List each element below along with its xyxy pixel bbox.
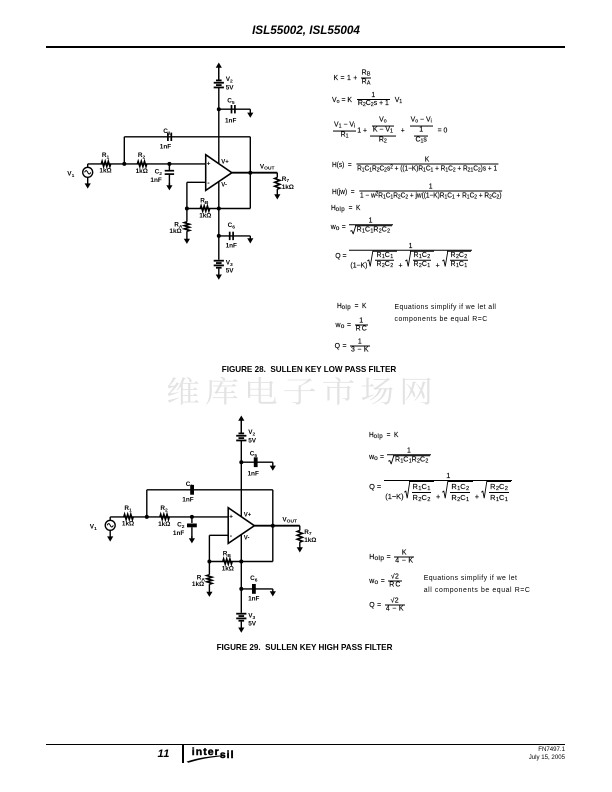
svg-text:V+: V+	[221, 160, 229, 166]
svg-text:C2: C2	[177, 521, 185, 529]
svg-text:1nF: 1nF	[160, 144, 171, 151]
svg-text:V1: V1	[67, 171, 74, 179]
svg-text:V-: V-	[244, 536, 250, 542]
svg-text:C6: C6	[228, 222, 236, 230]
svg-text:5V: 5V	[248, 437, 257, 444]
svg-text:1nF: 1nF	[226, 243, 237, 250]
svg-text:RB: RB	[200, 198, 209, 206]
svg-text:R2: R2	[160, 505, 168, 513]
svg-text:1kΩ: 1kΩ	[192, 581, 204, 588]
svg-text:5V: 5V	[248, 620, 257, 627]
svg-text:V+: V+	[244, 513, 252, 519]
svg-text:C6: C6	[250, 575, 258, 583]
svg-text:C5: C5	[227, 97, 235, 105]
svg-text:5V: 5V	[226, 267, 235, 274]
svg-text:1kΩ: 1kΩ	[222, 566, 234, 573]
svg-text:V2: V2	[226, 76, 233, 84]
svg-text:1nF: 1nF	[248, 596, 259, 603]
svg-text:1kΩ: 1kΩ	[169, 228, 181, 235]
svg-text:RB: RB	[223, 551, 232, 559]
svg-text:1kΩ: 1kΩ	[158, 521, 170, 528]
svg-text:+: +	[229, 514, 233, 521]
svg-text:R2: R2	[138, 152, 146, 160]
svg-text:1kΩ: 1kΩ	[304, 537, 316, 544]
svg-text:1nF: 1nF	[248, 470, 259, 477]
svg-text:1nF: 1nF	[225, 117, 236, 124]
svg-text:C5: C5	[250, 450, 258, 458]
svg-text:R1: R1	[102, 152, 110, 160]
svg-text:1nF: 1nF	[182, 497, 193, 504]
svg-text:1kΩ: 1kΩ	[99, 168, 111, 175]
svg-text:C1: C1	[163, 128, 171, 136]
svg-text:VOUT: VOUT	[260, 163, 275, 171]
svg-text:1kΩ: 1kΩ	[199, 213, 211, 220]
svg-text:C2: C2	[155, 168, 163, 176]
svg-text:+: +	[207, 161, 211, 168]
svg-text:1nF: 1nF	[173, 530, 184, 537]
svg-text:C1: C1	[186, 481, 194, 489]
svg-text:1nF: 1nF	[150, 177, 161, 184]
svg-text:R1: R1	[124, 505, 132, 513]
svg-text:VOUT: VOUT	[282, 516, 297, 524]
svg-text:1kΩ: 1kΩ	[136, 168, 148, 175]
svg-text:V2: V2	[248, 429, 255, 437]
svg-text:1kΩ: 1kΩ	[122, 521, 134, 528]
svg-text:1kΩ: 1kΩ	[282, 184, 294, 191]
svg-text:V-: V-	[221, 183, 227, 189]
svg-text:V1: V1	[90, 524, 97, 532]
svg-text:5V: 5V	[226, 84, 235, 91]
